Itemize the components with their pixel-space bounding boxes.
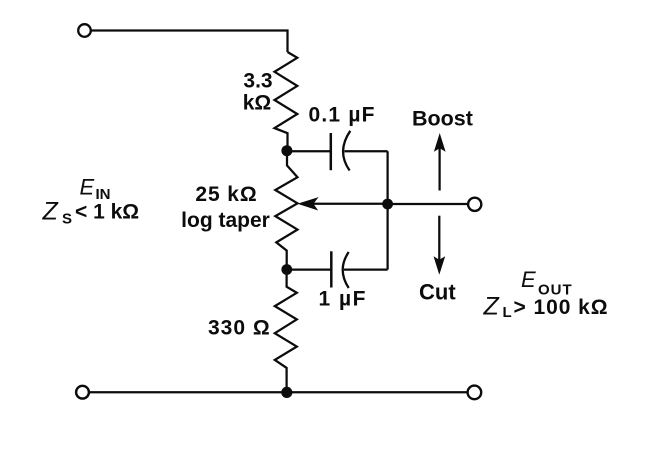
svg-text:330 Ω: 330 Ω — [208, 316, 271, 339]
capacitor C1 0.1 uF — [331, 131, 351, 171]
wire vertical bus — [386, 151, 388, 269]
svg-text:E: E — [521, 267, 536, 292]
svg-text:0.1 µF: 0.1 µF — [309, 104, 376, 127]
capacitor C2 1 uF — [331, 251, 348, 288]
wiper arrow of R2 — [297, 197, 387, 210]
wire node A to C1 — [287, 150, 331, 152]
potentiometer R2 25 kOhm — [275, 152, 297, 270]
terminal T4 (output bottom) — [468, 386, 482, 400]
wire node C to C2 — [287, 268, 331, 270]
boost arrow (up) — [434, 133, 446, 191]
svg-text:25 kΩ: 25 kΩ — [195, 183, 257, 206]
svg-text:< 1 kΩ: < 1 kΩ — [75, 201, 139, 224]
label R1 value 3.3 kOhm — [243, 70, 273, 115]
svg-text:> 100 kΩ: > 100 kΩ — [514, 296, 609, 319]
svg-text:log taper: log taper — [181, 209, 270, 232]
svg-text:Z: Z — [42, 198, 59, 226]
label E_IN — [80, 175, 111, 204]
resistor R1 3.3 kOhm — [275, 52, 298, 146]
cut arrow (down) — [434, 216, 446, 275]
wire C1 to bus — [345, 150, 388, 152]
svg-text:kΩ: kΩ — [243, 92, 272, 115]
label Z_S < 1 kOhm — [42, 198, 140, 228]
terminal T1 (input top) — [78, 24, 91, 37]
svg-text:Boost: Boost — [412, 106, 473, 130]
wire bottom — [89, 391, 467, 393]
wire output — [388, 203, 468, 205]
resistor R3 330 Ohm — [275, 270, 297, 389]
label Boost — [412, 106, 473, 130]
node C (lower junction) — [281, 264, 292, 275]
svg-text:1 µF: 1 µF — [319, 288, 367, 311]
svg-text:Z: Z — [483, 293, 500, 321]
terminal T3 (input bottom) — [76, 386, 89, 399]
label C2 value 1 uF — [319, 288, 367, 311]
node B (output junction) — [382, 199, 393, 210]
label R2 value 25 kOhm log taper — [181, 183, 270, 232]
svg-text:E: E — [80, 175, 95, 200]
label C1 value 0.1 uF — [309, 104, 376, 127]
svg-text:Cut: Cut — [419, 280, 456, 305]
svg-text:S: S — [62, 211, 72, 228]
label Z_L > 100 kOhm — [483, 293, 609, 322]
label R3 value 330 Ohm — [208, 316, 271, 339]
node D (bottom junction) — [281, 387, 292, 398]
svg-text:L: L — [503, 304, 512, 321]
terminal T2 (output) — [468, 198, 481, 211]
wire top input — [91, 31, 288, 53]
label Cut — [419, 280, 456, 305]
label E_OUT — [521, 267, 573, 299]
svg-text:3.3: 3.3 — [243, 70, 272, 93]
node A (top junction) — [281, 145, 292, 156]
wire C2 to bus — [344, 268, 388, 270]
